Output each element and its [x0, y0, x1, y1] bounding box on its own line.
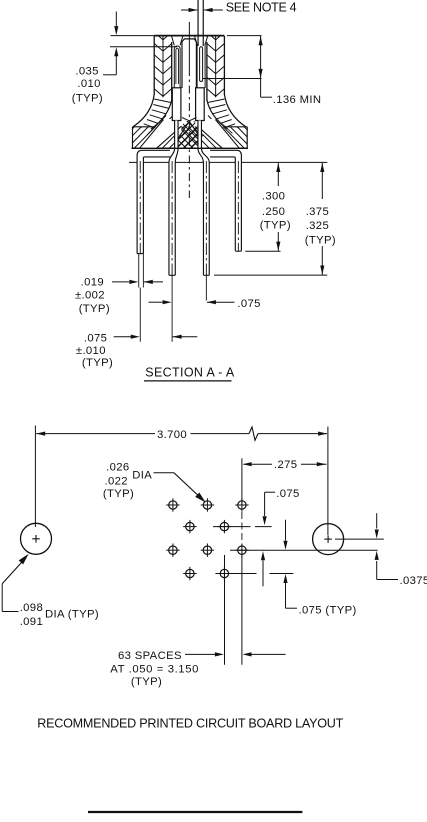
- right wall edges: [223, 36, 225, 95]
- corner wedge hatch: [112, 116, 222, 150]
- base bottom edge: [132, 147, 248, 149]
- leg D (outer right): [210, 150, 241, 251]
- svg-text:.325: .325: [306, 220, 329, 232]
- leader .098/.091 DIA: [19, 554, 29, 565]
- svg-text:(TYP): (TYP): [82, 357, 113, 369]
- svg-text:(TYP): (TYP): [305, 234, 336, 246]
- svg-text:(TYP): (TYP): [260, 220, 291, 232]
- svg-text:±.002: ±.002: [75, 290, 105, 302]
- dim 63 spaces: [224, 555, 226, 665]
- row lines: [213, 526, 251, 528]
- leg centerlines: [139, 161, 141, 254]
- svg-text:.026: .026: [106, 461, 129, 473]
- dim .075 leg B-C: [149, 301, 163, 303]
- svg-text:DIA (TYP): DIA (TYP): [45, 608, 99, 620]
- svg-text:.098: .098: [20, 602, 43, 614]
- svg-text:SEE NOTE 4: SEE NOTE 4: [226, 0, 297, 14]
- dim .035/.010: [111, 35, 155, 37]
- svg-text:(TYP): (TYP): [72, 92, 103, 104]
- svg-text:.022: .022: [105, 476, 128, 488]
- right wall hatch: [207, 32, 225, 98]
- right contact inner capsule: [200, 47, 203, 82]
- dim .375/.325 legs B/C: [214, 274, 327, 276]
- svg-text:.300: .300: [262, 190, 285, 202]
- svg-text:.075: .075: [84, 332, 107, 344]
- left contact body: [172, 88, 181, 121]
- svg-text:(TYP): (TYP): [79, 303, 110, 315]
- svg-text:.275: .275: [274, 459, 297, 471]
- svg-text:.0375: .0375: [400, 575, 427, 587]
- svg-text:.075: .075: [276, 488, 299, 500]
- dim 3.700: [34, 426, 36, 447]
- base hatch right: [180, 126, 274, 150]
- svg-text:SECTION A - A: SECTION A - A: [145, 366, 235, 380]
- connector base block outline: [132, 127, 248, 149]
- left contact slot hole: [174, 46, 180, 88]
- leg A (outer left): [137, 150, 170, 253]
- svg-text:.136 MIN: .136 MIN: [273, 94, 322, 106]
- right contact body: [196, 88, 205, 121]
- right flare band: [224, 94, 245, 127]
- leg channel right: [197, 119, 239, 148]
- left wall hatch: [154, 32, 172, 98]
- svg-text:3.700: 3.700: [157, 429, 187, 441]
- dim .275: [241, 458, 243, 505]
- left flare band: [133, 94, 154, 127]
- entry chamfers: [172, 36, 175, 45]
- bottom rule: [88, 811, 302, 813]
- base hatch left: [112, 126, 213, 150]
- dim SEE NOTE 4: [181, 9, 197, 11]
- svg-text:.091: .091: [20, 616, 43, 628]
- svg-text:.375: .375: [306, 206, 329, 218]
- seating plane line: [129, 161, 327, 163]
- funnel lines: [178, 121, 189, 138]
- centerline: [188, 22, 190, 68]
- arrow up to row3: [262, 561, 264, 587]
- svg-text:(TYP): (TYP): [103, 488, 134, 500]
- svg-text:.075: .075: [237, 298, 260, 310]
- body top surface: [154, 35, 224, 37]
- left mounting hole: [21, 523, 52, 554]
- dim .075 leg A-B: [114, 336, 131, 338]
- svg-text:.035: .035: [75, 66, 98, 78]
- svg-text:.010: .010: [77, 78, 100, 90]
- svg-text:.019: .019: [81, 276, 104, 288]
- boss floor: [182, 118, 189, 121]
- break symbol: [249, 427, 258, 440]
- mid strip hatch: [154, 116, 237, 150]
- center boss: [182, 39, 196, 88]
- dim .075 TYP rows 3-4: [285, 520, 287, 541]
- svg-text:RECOMMENDED PRINTED CIRCUIT BO: RECOMMENDED PRINTED CIRCUIT BOARD LAYOUT: [37, 717, 343, 731]
- svg-text:.075 (TYP): .075 (TYP): [299, 604, 357, 616]
- right mounting hole: [313, 524, 344, 555]
- svg-text:±.010: ±.010: [76, 345, 106, 357]
- dim .075 rows 1-2: [265, 491, 276, 493]
- dim .0375: [376, 513, 378, 528]
- leg B (from left contact tail): [169, 121, 178, 276]
- leg C (from right contact tail): [198, 121, 209, 276]
- leg channel left: [140, 119, 182, 148]
- left wall edges: [153, 36, 155, 95]
- dim .300/.250 leg D: [245, 250, 280, 252]
- pin holes: [169, 501, 177, 509]
- left contact inner capsule: [176, 48, 179, 84]
- right contact slot hole: [196, 44, 198, 89]
- svg-text:AT .050 = 3.150: AT .050 = 3.150: [110, 663, 199, 675]
- svg-text:(TYP): (TYP): [131, 676, 162, 688]
- dim .136 MIN: [227, 35, 262, 37]
- svg-text:.250: .250: [262, 206, 285, 218]
- svg-text:63 SPACES: 63 SPACES: [118, 650, 182, 662]
- leg tip caps: [137, 253, 143, 255]
- dim .019 pin width: [138, 254, 140, 288]
- svg-text:DIA: DIA: [132, 469, 152, 481]
- pin: [197, 0, 199, 46]
